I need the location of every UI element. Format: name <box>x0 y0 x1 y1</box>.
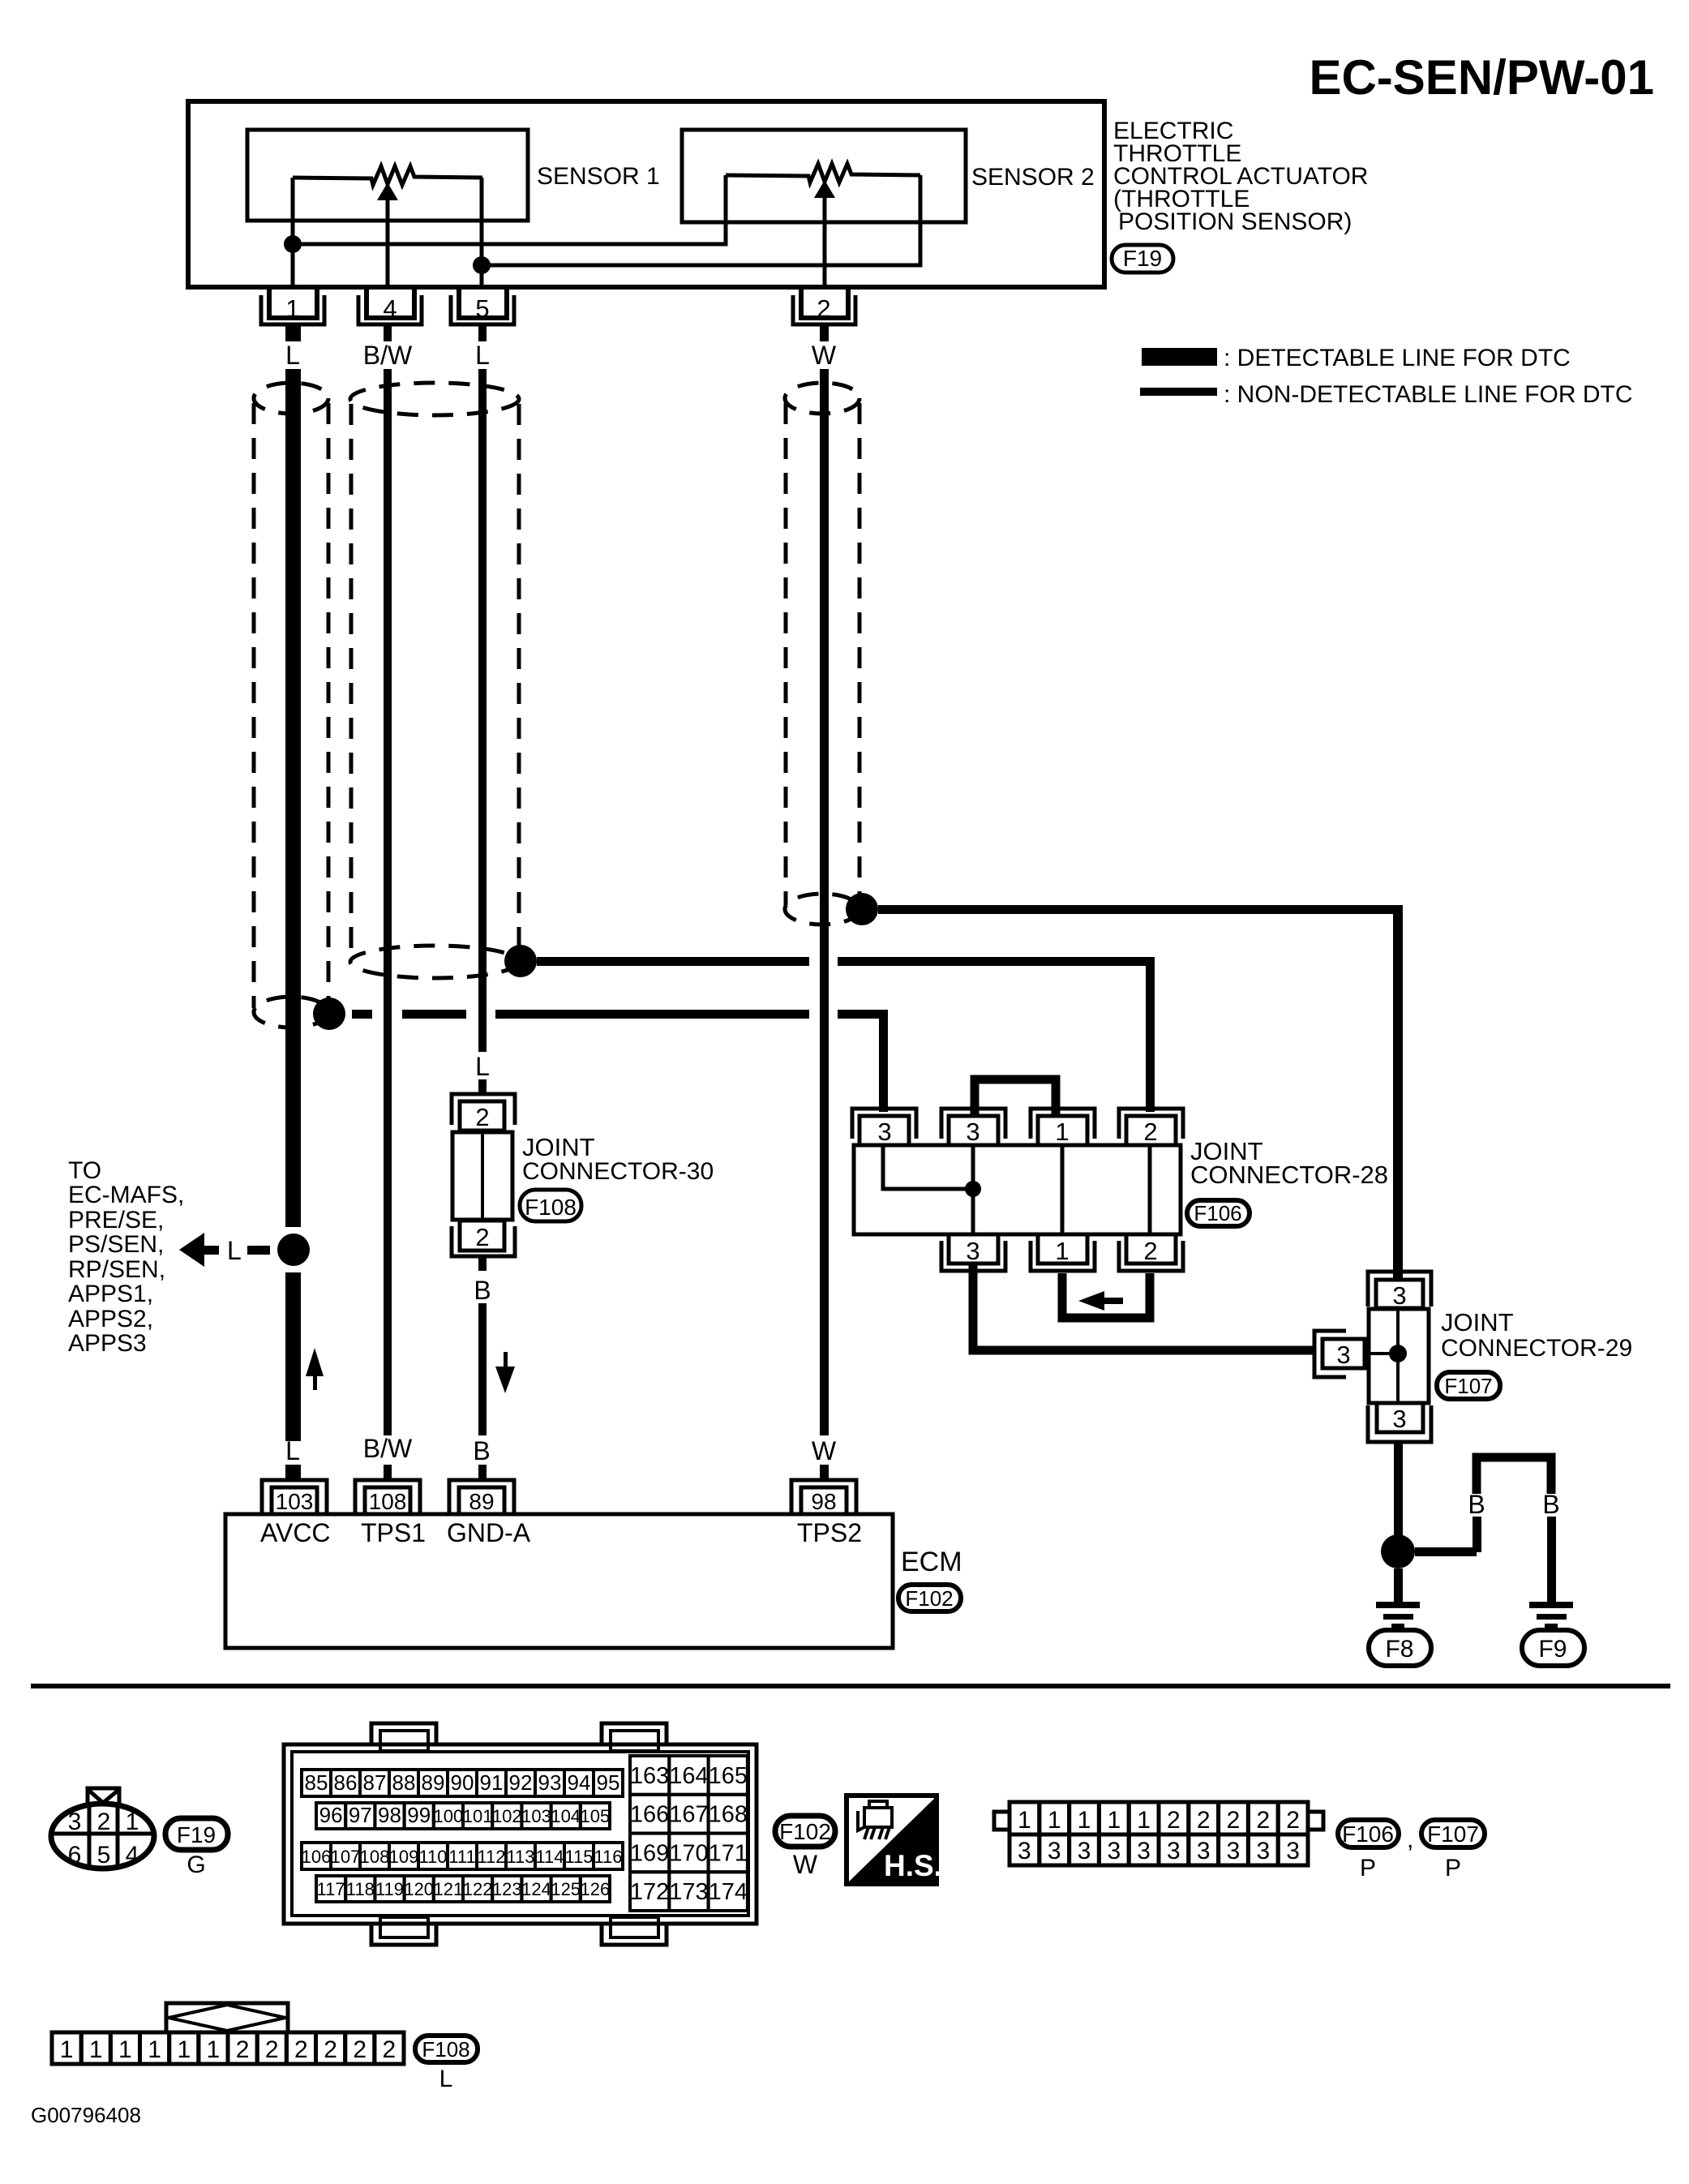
svg-text:F9: F9 <box>1538 1636 1567 1663</box>
svg-text:2: 2 <box>475 1223 489 1251</box>
shield cylinder around wire W <box>785 383 860 925</box>
svg-text:2: 2 <box>294 2036 308 2063</box>
resistor R sensor1 <box>293 166 482 185</box>
svg-text:113: 113 <box>506 1847 534 1867</box>
arrow down on wire B <box>504 1352 508 1367</box>
JC-28 internal bus node <box>965 1181 981 1197</box>
svg-text:174: 174 <box>709 1879 748 1905</box>
svg-text:109: 109 <box>389 1847 419 1867</box>
ground F8 <box>1376 1602 1420 1628</box>
svg-text:1: 1 <box>285 294 299 323</box>
svg-text:AVCC: AVCC <box>260 1518 331 1547</box>
svg-text:1: 1 <box>1018 1807 1031 1834</box>
svg-text:F102: F102 <box>779 1819 831 1844</box>
svg-text:CONNECTOR-28: CONNECTOR-28 <box>1190 1161 1388 1189</box>
svg-text:CONNECTOR-30: CONNECTOR-30 <box>522 1158 714 1185</box>
legend detectable line sample <box>1142 348 1217 366</box>
svg-text:3: 3 <box>1256 1838 1270 1864</box>
ground F9 <box>1529 1602 1573 1628</box>
svg-text:96: 96 <box>319 1803 343 1827</box>
svg-text:120: 120 <box>404 1879 434 1899</box>
svg-text:89: 89 <box>422 1770 445 1795</box>
svg-text:1: 1 <box>1078 1807 1091 1834</box>
svg-text:2: 2 <box>475 1103 489 1131</box>
svg-text:102: 102 <box>492 1806 522 1826</box>
svg-text:F19: F19 <box>1123 246 1162 271</box>
arrow to EC-MAFS <box>179 1233 204 1267</box>
connector face F108 <box>52 2032 404 2064</box>
wire stub pin 98 <box>820 1465 829 1481</box>
svg-text:110: 110 <box>418 1847 447 1867</box>
svg-text:2: 2 <box>353 2036 367 2063</box>
svg-text:3: 3 <box>1392 1281 1406 1310</box>
joint connector-28 pin 2 bottom <box>1126 1234 1176 1264</box>
connector ref F9 <box>1522 1630 1584 1666</box>
svg-text:163: 163 <box>630 1763 669 1789</box>
svg-text:P: P <box>1445 1855 1461 1882</box>
svg-text:112: 112 <box>477 1847 505 1867</box>
svg-text:G00796408: G00796408 <box>31 2103 141 2127</box>
wire B JC-30 to ECM <box>478 1303 487 1435</box>
svg-text:2: 2 <box>324 2036 337 2063</box>
svg-text:F106: F106 <box>1194 1201 1241 1225</box>
svg-text:3: 3 <box>1286 1838 1300 1864</box>
svg-text:2: 2 <box>1143 1118 1157 1146</box>
svg-text:1: 1 <box>1107 1807 1121 1834</box>
svg-text:W: W <box>812 1436 837 1465</box>
svg-text:2: 2 <box>1227 1807 1241 1834</box>
svg-text:170: 170 <box>669 1840 708 1866</box>
wire stub below JC-30 <box>478 1258 487 1271</box>
svg-text:2: 2 <box>1256 1807 1270 1834</box>
svg-text:111: 111 <box>448 1847 475 1867</box>
svg-text:104: 104 <box>551 1806 581 1826</box>
svg-text:168: 168 <box>709 1802 748 1828</box>
joint connector-29 pin 3 left <box>1322 1339 1365 1368</box>
svg-text:,: , <box>1407 1826 1413 1853</box>
node shield drain L pin1 <box>313 998 345 1030</box>
svg-text:SENSOR 1: SENSOR 1 <box>537 163 660 190</box>
svg-text:87: 87 <box>363 1770 387 1795</box>
svg-text:108: 108 <box>360 1847 390 1867</box>
wiper arrow sensor2 <box>814 180 835 198</box>
svg-text:114: 114 <box>535 1847 564 1867</box>
wire JC-29 to ground <box>1394 1442 1403 1535</box>
resistor R sensor2 <box>726 164 920 182</box>
svg-text:98: 98 <box>811 1489 836 1514</box>
svg-text:1: 1 <box>1137 1807 1151 1834</box>
svg-text:G: G <box>186 1851 205 1878</box>
svg-text:173: 173 <box>669 1879 708 1905</box>
svg-text:2: 2 <box>1286 1807 1300 1834</box>
connector ref F106 detail <box>1338 1820 1485 1882</box>
svg-text:2: 2 <box>236 2036 250 2063</box>
joint connector-30 body <box>452 1132 512 1220</box>
label TO EC-MAFS PRE/SE PS/SEN RP/SEN APPS1 APPS2 APPS3 <box>68 1157 184 1357</box>
svg-text:1: 1 <box>207 2036 221 2063</box>
svg-text:F107: F107 <box>1444 1374 1492 1398</box>
svg-text:116: 116 <box>594 1847 622 1867</box>
svg-text:118: 118 <box>346 1879 375 1899</box>
svg-text:B: B <box>474 1276 491 1305</box>
pin 4 of F19 <box>358 289 422 341</box>
wire JC-28 pin3 to JC-29 <box>973 1264 1314 1350</box>
svg-text:TPS1: TPS1 <box>361 1518 426 1547</box>
svg-text:POSITION SENSOR): POSITION SENSOR) <box>1118 208 1352 235</box>
svg-text:2: 2 <box>817 294 830 323</box>
JC-28 internal bus line <box>971 1145 975 1234</box>
svg-text:93: 93 <box>538 1770 562 1795</box>
wire L AVCC upper segment <box>285 369 301 1227</box>
ECM pin 108 <box>355 1480 420 1514</box>
svg-text:90: 90 <box>451 1770 474 1795</box>
svg-text:1: 1 <box>177 2036 191 2063</box>
svg-text:APPS1,: APPS1, <box>68 1281 153 1307</box>
svg-text:3: 3 <box>1167 1838 1181 1864</box>
svg-text:: NON-DETECTABLE LINE FOR DTC: : NON-DETECTABLE LINE FOR DTC <box>1224 381 1633 408</box>
joint connector-29 pin 3 top <box>1376 1280 1423 1308</box>
svg-text:F8: F8 <box>1385 1636 1413 1663</box>
svg-text:L: L <box>475 1052 490 1081</box>
svg-text:6: 6 <box>68 1842 82 1869</box>
arrow up on wire L <box>306 1348 324 1376</box>
joint connector-30 pin 2 bottom <box>460 1221 504 1251</box>
pin 5 of F19 <box>451 289 514 341</box>
joint connector-29 body <box>1369 1309 1429 1403</box>
svg-text:3: 3 <box>1078 1838 1091 1864</box>
connector ref F108 <box>520 1190 581 1221</box>
svg-text:99: 99 <box>407 1803 431 1827</box>
svg-text:APPS2,: APPS2, <box>68 1306 153 1332</box>
wire L AVCC lower segment <box>285 1272 301 1441</box>
svg-text:3: 3 <box>1107 1838 1121 1864</box>
joint connector-28 pin 1 bottom <box>1038 1234 1087 1264</box>
svg-text:F102: F102 <box>905 1586 953 1611</box>
wire bridge JC-28 pins 3 and 1 <box>975 1079 1056 1115</box>
svg-text:L: L <box>227 1236 242 1265</box>
svg-text:L: L <box>475 341 490 370</box>
connector ref F108 detail <box>415 2036 478 2092</box>
svg-text:EC-MAFS,: EC-MAFS, <box>68 1182 184 1208</box>
svg-text:121: 121 <box>434 1879 464 1899</box>
svg-text:94: 94 <box>568 1770 591 1795</box>
svg-text:100: 100 <box>434 1806 464 1826</box>
svg-text:126: 126 <box>581 1879 611 1899</box>
svg-text:TO: TO <box>68 1157 101 1184</box>
svg-text:L: L <box>285 1436 300 1465</box>
pin 1 of F19 <box>261 289 324 341</box>
svg-text:2: 2 <box>1143 1237 1157 1265</box>
svg-text:SENSOR 2: SENSOR 2 <box>971 164 1095 191</box>
wire B/W TPS1 <box>384 369 392 1435</box>
wire run A shield W to JC-29 <box>878 905 1398 914</box>
shield cylinder around wire L pin1 <box>254 383 328 1028</box>
svg-text:92: 92 <box>509 1770 533 1795</box>
ECM pin 98 <box>791 1480 856 1514</box>
connector ref F102 <box>898 1585 961 1611</box>
JC-29 internal node <box>1389 1345 1407 1362</box>
svg-text:B: B <box>1468 1490 1485 1519</box>
wire stub pin 89 <box>478 1465 487 1481</box>
svg-text:L: L <box>285 341 300 370</box>
JC-28 internal wire pin3a to bus <box>883 1145 967 1189</box>
node B sensor1 right junction <box>473 256 491 274</box>
svg-text:1: 1 <box>1055 1118 1069 1146</box>
JC-29 internal line left pin <box>1365 1352 1391 1355</box>
F108 diamond key <box>166 2003 288 2032</box>
svg-text:RP/SEN,: RP/SEN, <box>68 1256 165 1283</box>
svg-text:3: 3 <box>1197 1838 1211 1864</box>
svg-text:2: 2 <box>265 2036 279 2063</box>
svg-text:5: 5 <box>475 294 489 323</box>
legend non-detectable line sample <box>1140 388 1217 396</box>
connector ref F8 <box>1369 1630 1431 1666</box>
svg-text:1: 1 <box>126 1809 139 1835</box>
node ground splice <box>1381 1534 1415 1568</box>
wire stub pin 108 <box>384 1465 392 1481</box>
connector face F106 F107 <box>994 1802 1323 1865</box>
wire sensor1 left leg <box>291 178 295 290</box>
svg-text:86: 86 <box>334 1770 358 1795</box>
icon H.S. <box>847 1796 942 1884</box>
wire B to ground F9 <box>1547 1517 1556 1602</box>
joint connector-28 pin 2 top <box>1119 1109 1183 1139</box>
svg-text:106: 106 <box>302 1847 332 1867</box>
wire dash to splice <box>247 1246 270 1255</box>
svg-text:F107: F107 <box>1427 1821 1479 1847</box>
svg-text:117: 117 <box>317 1879 345 1899</box>
svg-text:APPS3: APPS3 <box>68 1330 147 1357</box>
svg-text:3: 3 <box>966 1237 980 1265</box>
joint connector-28 body <box>854 1145 1181 1234</box>
joint connector-28 pin 3 bottom <box>949 1234 998 1264</box>
svg-text:F19: F19 <box>177 1822 216 1847</box>
svg-text:98: 98 <box>378 1803 401 1827</box>
svg-text:4: 4 <box>383 294 397 323</box>
connector ref F102 detail <box>775 1816 835 1879</box>
svg-text:1: 1 <box>1048 1807 1061 1834</box>
joint connector-29 top bracket <box>1368 1272 1431 1307</box>
svg-text:3: 3 <box>877 1118 891 1146</box>
svg-text:107: 107 <box>331 1847 361 1867</box>
svg-text:F106: F106 <box>1342 1821 1394 1847</box>
wire B loop top <box>1477 1457 1551 1494</box>
svg-text:89: 89 <box>469 1489 494 1514</box>
svg-text:CONNECTOR-29: CONNECTOR-29 <box>1441 1335 1632 1362</box>
svg-text:JOINT: JOINT <box>522 1133 595 1161</box>
svg-text:171: 171 <box>709 1840 748 1866</box>
svg-text:3: 3 <box>68 1809 82 1835</box>
node splice on wire L <box>277 1234 310 1266</box>
wire splice to B loop <box>1415 1547 1477 1556</box>
svg-text:3: 3 <box>966 1118 980 1146</box>
svg-text:169: 169 <box>630 1840 669 1866</box>
joint connector-28 pin 3b top <box>941 1109 1005 1139</box>
wire loop JC-28 pin1 to pin2 <box>1062 1273 1150 1318</box>
svg-text:PS/SEN,: PS/SEN, <box>68 1231 164 1258</box>
ECM box <box>225 1514 893 1648</box>
svg-text:2: 2 <box>97 1809 111 1835</box>
joint connector-29 pin 3 left bracket <box>1314 1331 1346 1377</box>
svg-text:3: 3 <box>1048 1838 1061 1864</box>
sensor 2 box <box>682 130 966 222</box>
svg-text:B/W: B/W <box>363 341 413 370</box>
node A sensor1 left junction <box>284 235 302 253</box>
svg-text:F108: F108 <box>422 2037 469 2062</box>
svg-text:H.S.: H.S. <box>884 1849 942 1882</box>
joint connector-29 pin 3 bottom <box>1377 1403 1423 1432</box>
connector face F19 <box>51 1788 154 1869</box>
shield cylinder around wires B/W and L pin5 <box>350 383 519 978</box>
node shield drain W <box>846 893 878 925</box>
svg-text:3: 3 <box>1227 1838 1241 1864</box>
node shield drain L pin5 <box>504 945 537 977</box>
joint connector-30 pin 2 top <box>460 1101 504 1131</box>
svg-text:GND-A: GND-A <box>447 1518 531 1547</box>
svg-text:165: 165 <box>709 1763 748 1789</box>
svg-text:B: B <box>473 1436 490 1465</box>
svg-text:: DETECTABLE LINE FOR DTC: : DETECTABLE LINE FOR DTC <box>1224 345 1571 371</box>
JC-28 internal line pin2 <box>1148 1145 1152 1234</box>
throttle actuator outer box F19 <box>188 101 1104 287</box>
wire splice to ground F8 <box>1394 1568 1403 1602</box>
svg-text:125: 125 <box>551 1879 581 1899</box>
JC-28 internal line pin1 <box>1061 1145 1065 1234</box>
svg-text:F108: F108 <box>525 1195 577 1220</box>
svg-text:166: 166 <box>630 1802 669 1828</box>
svg-text:B/W: B/W <box>363 1434 413 1463</box>
wire sensor1 right leg <box>480 178 484 290</box>
connector ref F107 <box>1437 1372 1500 1399</box>
svg-text:L: L <box>439 2066 453 2092</box>
svg-text:W: W <box>812 341 837 370</box>
pin 2 of F19 <box>793 289 855 341</box>
svg-text:115: 115 <box>564 1847 593 1867</box>
svg-text:103: 103 <box>276 1489 314 1514</box>
svg-text:3: 3 <box>1336 1341 1350 1369</box>
svg-text:P: P <box>1360 1855 1376 1882</box>
svg-text:2: 2 <box>1197 1807 1211 1834</box>
wire L pin5 to JC-30 <box>478 369 487 1052</box>
svg-text:1: 1 <box>1055 1237 1069 1265</box>
svg-text:172: 172 <box>630 1879 669 1905</box>
wire W TPS2 <box>820 369 829 1435</box>
svg-text:95: 95 <box>597 1770 620 1795</box>
connector face F102 ECM <box>284 1723 757 1945</box>
wire stub into JC-30 <box>478 1079 487 1093</box>
wire run C shield L to JC-28 pin 3 <box>352 1010 372 1019</box>
wire run B shield L5 to JC-28 pin 2 <box>537 957 809 966</box>
arrow left in loop <box>1078 1291 1104 1311</box>
svg-text:123: 123 <box>492 1879 522 1899</box>
svg-text:2: 2 <box>383 2036 397 2063</box>
svg-text:JOINT: JOINT <box>1441 1308 1514 1337</box>
svg-text:119: 119 <box>375 1879 404 1899</box>
svg-text:W: W <box>793 1850 818 1879</box>
svg-text:101: 101 <box>463 1806 493 1826</box>
svg-text:105: 105 <box>581 1806 611 1826</box>
svg-text:ECM: ECM <box>901 1547 962 1577</box>
wire stub pin 103 <box>285 1465 301 1481</box>
wire net to sensor2 right <box>482 175 920 265</box>
svg-text:164: 164 <box>669 1763 708 1789</box>
svg-text:103: 103 <box>521 1806 551 1826</box>
svg-text:124: 124 <box>521 1879 551 1899</box>
separator line <box>31 1684 1670 1688</box>
svg-text:3: 3 <box>1392 1405 1406 1433</box>
joint connector-28 pin 1 top <box>1031 1109 1095 1139</box>
svg-text:97: 97 <box>349 1803 372 1827</box>
svg-text:85: 85 <box>305 1770 328 1795</box>
svg-text:2: 2 <box>1167 1807 1181 1834</box>
svg-text:1: 1 <box>148 2036 161 2063</box>
svg-text:EC-SEN/PW-01: EC-SEN/PW-01 <box>1309 50 1654 105</box>
svg-text:88: 88 <box>392 1770 416 1795</box>
ECM pin grid rows <box>302 1756 748 1911</box>
connector ref F106 <box>1187 1200 1250 1226</box>
wire net AVCC to sensor2 <box>293 175 726 244</box>
svg-text:1: 1 <box>118 2036 132 2063</box>
ECM pin 89 <box>449 1480 514 1514</box>
joint connector-28 pin 3a top <box>852 1109 916 1139</box>
svg-text:122: 122 <box>463 1879 493 1899</box>
svg-text:TPS2: TPS2 <box>797 1518 862 1547</box>
wiper arrow sensor1 <box>377 182 398 200</box>
svg-text:B: B <box>1542 1490 1559 1519</box>
svg-text:4: 4 <box>126 1842 139 1869</box>
connector ref F19 <box>1112 245 1173 272</box>
joint connector-30 bottom bracket <box>452 1226 515 1256</box>
svg-text:PRE/SE,: PRE/SE, <box>68 1207 164 1234</box>
svg-text:3: 3 <box>1018 1838 1031 1864</box>
ECM pin 103 <box>262 1480 327 1514</box>
svg-text:1: 1 <box>89 2036 103 2063</box>
svg-text:167: 167 <box>669 1802 708 1828</box>
joint connector-30 top bracket <box>452 1094 515 1125</box>
svg-text:3: 3 <box>1137 1838 1151 1864</box>
connector ref F19 detail <box>165 1818 228 1878</box>
svg-text:91: 91 <box>480 1770 504 1795</box>
svg-text:108: 108 <box>369 1489 407 1514</box>
svg-text:1: 1 <box>60 2036 74 2063</box>
sensor 1 box <box>247 130 528 221</box>
svg-text:5: 5 <box>97 1842 111 1869</box>
